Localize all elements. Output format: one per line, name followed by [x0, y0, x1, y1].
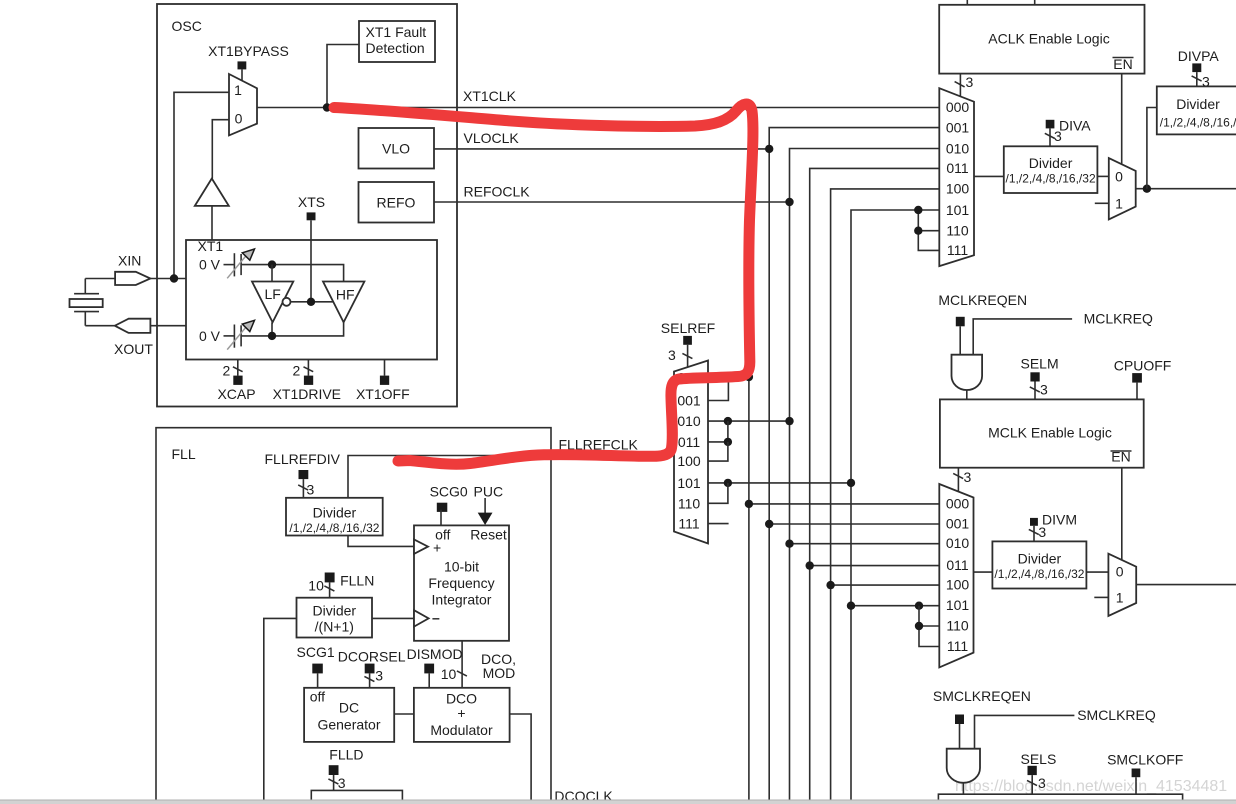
- wire XT1DRIVE stub: [293, 360, 314, 379]
- divider DIVPA box: [1157, 86, 1236, 134]
- svg-text:ACLK Enable Logic: ACLK Enable Logic: [988, 31, 1109, 47]
- wire ACLK enable stub up a: [966, 0, 968, 5]
- junction top node: [268, 260, 276, 268]
- wire mux input 0 from buffer: [212, 120, 229, 179]
- wire PUC arrow: [478, 498, 493, 525]
- MCLK Enable Logic box: [940, 399, 1144, 467]
- svg-text:001: 001: [677, 393, 701, 409]
- capacitor top variable: [224, 249, 273, 278]
- svg-text:https://blog.csdn.net/weixin_4: https://blog.csdn.net/weixin_41534481: [955, 778, 1227, 795]
- svg-text:3: 3: [375, 668, 383, 684]
- pin square SELS: [1028, 766, 1037, 775]
- wire and gate to SMCLK enable: [962, 783, 964, 795]
- svg-text:DIVM: DIVM: [1042, 512, 1077, 528]
- wire REFOCLK: [434, 201, 790, 203]
- junction mclk 110 bracket: [915, 622, 923, 630]
- svg-text:XT1CLK: XT1CLK: [463, 88, 517, 104]
- wire DIVM stub: [1029, 524, 1047, 541]
- svg-text:Modulator: Modulator: [430, 722, 493, 738]
- wire MCLK EN line: [1121, 468, 1123, 560]
- junction selref 010 refoclk: [785, 417, 793, 425]
- wire ACLK EN line: [1121, 74, 1123, 165]
- pin square XCAP: [233, 376, 242, 385]
- svg-text:VLOCLK: VLOCLK: [464, 130, 520, 146]
- svg-text:1: 1: [1116, 590, 1124, 606]
- FLL block outline: [156, 428, 551, 800]
- pin square SCG1: [312, 664, 323, 674]
- pin XOUT: [115, 319, 151, 333]
- mux MCLK source select: [939, 484, 973, 667]
- svg-text:XIN: XIN: [118, 253, 141, 269]
- crystal leads: [84, 279, 86, 326]
- wire SELREF 100 input: [708, 442, 728, 461]
- wire MCLKREQEN to and gate: [959, 326, 961, 354]
- svg-text:0: 0: [235, 111, 243, 127]
- svg-text:PUC: PUC: [474, 484, 504, 500]
- svg-text:/1,/2,/4,/8,/16,/32: /1,/2,/4,/8,/16,/32: [289, 521, 379, 535]
- svg-text:SMCLKREQ: SMCLKREQ: [1077, 707, 1156, 723]
- pin square SMCLKREQEN: [955, 715, 964, 725]
- wire refdiv out to integrator: [348, 536, 414, 547]
- svg-text:010: 010: [677, 413, 701, 429]
- integrator box 10-bit: [414, 525, 509, 640]
- wire MCLK mux 110 input: [919, 625, 939, 627]
- wire bottom node horizontal: [272, 322, 344, 336]
- svg-text:3: 3: [1038, 524, 1046, 540]
- pin square DIVA: [1046, 120, 1055, 129]
- clock chevron plus input: [414, 539, 428, 554]
- wire SELREF 110 input: [708, 483, 728, 503]
- wire SELREF 010 input from REFOCLK: [708, 420, 790, 422]
- junction selref 010 bracket: [724, 417, 732, 425]
- pin square XTS: [307, 212, 316, 220]
- pin square XT1BYPASS: [238, 61, 247, 69]
- svg-text:001: 001: [946, 120, 970, 136]
- svg-text:Detection: Detection: [366, 40, 425, 56]
- wire SCG0 stub: [440, 510, 442, 526]
- junction bracket 101: [914, 206, 922, 214]
- pin square FLLN: [325, 573, 335, 583]
- svg-text:SCG0: SCG0: [430, 484, 468, 500]
- wire SELM stub: [1030, 382, 1048, 400]
- junction bracket 110: [914, 227, 922, 235]
- svg-text:/1,/2,/4,/8,/16,/32: /1,/2,/4,/8,/16,/32: [1006, 172, 1096, 186]
- wire ACLK mux out to divider: [974, 175, 1004, 177]
- amplifier LF: [252, 282, 293, 323]
- red marker annotation stroke: [334, 104, 753, 464]
- inverter bubble LF output: [283, 298, 291, 306]
- svg-text:XT1OFF: XT1OFF: [356, 386, 410, 402]
- scrollbar: [0, 800, 1236, 804]
- wire SMCLKOFF stub: [1135, 777, 1137, 794]
- svg-text:111: 111: [947, 638, 968, 654]
- pin square XT1DRIVE: [304, 376, 313, 385]
- svg-text:VLO: VLO: [382, 141, 410, 157]
- svg-text:XCAP: XCAP: [217, 386, 255, 402]
- svg-text:3: 3: [1040, 382, 1048, 398]
- wire FLLREFCLK from SELREF: [348, 456, 674, 498]
- svg-text:000: 000: [946, 99, 970, 115]
- svg-text:REFOCLK: REFOCLK: [464, 184, 531, 200]
- junction selref 101 bracket: [724, 479, 732, 487]
- junction XIN node: [170, 274, 178, 282]
- pin square DIVPA: [1192, 63, 1201, 72]
- vertical bus REFOCLK: [790, 149, 940, 801]
- pin square SMCLKOFF: [1132, 769, 1141, 778]
- junction XT1CLK selref: [745, 373, 753, 381]
- pin square DCORSEL: [365, 664, 375, 674]
- wire MCLK select 3: [953, 468, 971, 492]
- mux MCLK enable 01: [1108, 554, 1136, 616]
- svg-text:100: 100: [946, 181, 970, 197]
- svg-text:011: 011: [946, 557, 969, 573]
- junction XT1CLK at fault detect: [323, 103, 331, 111]
- wire FLLREFDIV stub: [298, 479, 314, 498]
- wire DIVA stub: [1045, 128, 1062, 146]
- svg-text:SELREF: SELREF: [661, 320, 715, 336]
- svg-text:XT1: XT1: [198, 238, 224, 254]
- pin square SCG0: [437, 503, 448, 512]
- pin square FLLREFDIV: [299, 470, 309, 479]
- svg-text:MOD: MOD: [483, 665, 516, 681]
- wire LF bubble to HF: [291, 301, 334, 303]
- svg-text:Divider: Divider: [1029, 155, 1073, 171]
- junction mclk 000: [745, 500, 753, 508]
- junction selref 101 bus: [847, 479, 855, 487]
- junction bottom node: [268, 332, 276, 340]
- divider DIVM box: [992, 541, 1086, 588]
- vertical bus XT1CLK: [748, 108, 750, 801]
- junction REFOCLK bus: [785, 198, 793, 206]
- svg-text:101: 101: [946, 202, 970, 218]
- svg-text:XT1 Fault: XT1 Fault: [366, 24, 427, 40]
- svg-text:Integrator: Integrator: [432, 592, 492, 608]
- wire XT1CLK output of mux: [257, 107, 939, 109]
- wire MCLK mux 101 input: [851, 605, 939, 607]
- pin square DIVM: [1030, 518, 1038, 526]
- svg-text:1: 1: [1115, 195, 1123, 211]
- XT1 core box: [186, 238, 437, 360]
- junction ACLK out: [1143, 185, 1151, 193]
- svg-text:SELM: SELM: [1021, 356, 1059, 372]
- wire divider to 01mux: [1097, 175, 1108, 177]
- svg-text:000: 000: [946, 495, 970, 511]
- junction XTS node: [307, 298, 315, 306]
- wire VLOCLK: [434, 148, 769, 150]
- svg-text:HF: HF: [336, 287, 355, 303]
- svg-text:LF: LF: [265, 286, 281, 302]
- wire N+1 out to integrator minus: [372, 617, 414, 619]
- wire bottom node: [271, 322, 273, 336]
- wire mux input 1 from XIN: [174, 92, 229, 278]
- svg-text:FLL: FLL: [172, 446, 196, 462]
- mux XT1BYPASS: [229, 74, 257, 135]
- wire MCLK mux out to divider: [974, 571, 993, 573]
- wire buffer to XT1 core: [211, 206, 213, 240]
- wire DC gen to DCO: [394, 713, 414, 715]
- svg-text:/1,/2,/4,/8,/16,/32: /1,/2,/4,/8,/16,/32: [1160, 116, 1236, 130]
- and gate MCLK request: [952, 355, 983, 390]
- svg-text:3: 3: [966, 74, 974, 90]
- wire SELREF 011 input: [708, 421, 728, 442]
- wire MCLKREQ: [973, 319, 1072, 355]
- svg-text:/(N+1): /(N+1): [315, 619, 354, 635]
- label DCO MOD: [481, 651, 516, 681]
- pin XIN: [115, 272, 150, 285]
- svg-text:FLLREFDIV: FLLREFDIV: [265, 451, 341, 467]
- svg-text:2: 2: [293, 363, 301, 379]
- svg-text:MCLKREQEN: MCLKREQEN: [938, 292, 1027, 308]
- junction selref 011: [724, 438, 732, 446]
- svg-text:0 V: 0 V: [199, 257, 221, 273]
- wire DCO output down: [510, 714, 531, 800]
- pin square CPUOFF: [1132, 373, 1142, 383]
- svg-text:MCLKREQ: MCLKREQ: [1084, 311, 1153, 327]
- svg-text:DIVA: DIVA: [1059, 118, 1091, 134]
- svg-text:3: 3: [964, 469, 972, 485]
- mux ACLK source select: [939, 88, 974, 266]
- DC Generator box: [304, 688, 394, 742]
- wire DIVPA stub: [1192, 72, 1210, 89]
- svg-text:10: 10: [308, 578, 324, 594]
- wire SELREF 000 input from XT1CLK: [708, 376, 749, 378]
- svg-text:0 V: 0 V: [199, 328, 221, 344]
- svg-text:FLLD: FLLD: [329, 747, 363, 763]
- svg-text:1: 1: [234, 82, 242, 98]
- wire CPUOFF stub: [1136, 383, 1138, 400]
- svg-text:REFO: REFO: [377, 195, 416, 211]
- pin square SELM: [1030, 372, 1039, 381]
- svg-text:0: 0: [1116, 564, 1124, 580]
- svg-text:111: 111: [678, 516, 699, 532]
- svg-text:off: off: [310, 689, 325, 705]
- svg-text:100: 100: [946, 577, 970, 593]
- divider FLLD box top: [311, 790, 402, 800]
- svg-text:XT1DRIVE: XT1DRIVE: [273, 386, 341, 402]
- SMCLK Enable Logic box top: [938, 794, 1182, 800]
- svg-text:101: 101: [946, 597, 970, 613]
- svg-text:SCG1: SCG1: [297, 644, 335, 660]
- svg-text:Frequency: Frequency: [428, 575, 494, 591]
- wire XT1 fault detect tap: [327, 45, 359, 108]
- divider N+1 box: [297, 598, 373, 638]
- DCO Modulator box: [414, 688, 510, 742]
- svg-text:XOUT: XOUT: [114, 341, 153, 357]
- wire ACLK mux 110 bracket: [918, 210, 939, 250]
- svg-text:XT1BYPASS: XT1BYPASS: [208, 43, 289, 59]
- pin square FLLD: [329, 765, 339, 775]
- svg-text:011: 011: [678, 434, 701, 450]
- mux ACLK enable 01: [1109, 158, 1136, 219]
- svg-text:EN: EN: [1113, 56, 1132, 72]
- wire ACLK select 3: [955, 74, 974, 97]
- amplifier HF: [323, 282, 364, 323]
- wire MCLK mux 011 input: [810, 565, 940, 567]
- wire SCG1 stub: [317, 673, 319, 687]
- svg-text:Divider: Divider: [1018, 551, 1062, 567]
- wire divm to 01mux: [1086, 571, 1108, 573]
- svg-text:101: 101: [677, 475, 701, 491]
- junction mclk 010: [785, 540, 793, 548]
- svg-text:010: 010: [946, 140, 970, 156]
- wire XTS stub into core: [310, 220, 312, 301]
- wire XCAP stub: [223, 360, 243, 379]
- mux SELREF: [674, 361, 708, 544]
- wire top node to LF input: [271, 265, 273, 282]
- svg-text:110: 110: [946, 618, 969, 634]
- wire and gate to MCLK enable: [966, 390, 968, 400]
- VLO oscillator box: [359, 128, 435, 169]
- svg-text:100: 100: [677, 453, 701, 469]
- svg-text:Divider: Divider: [313, 505, 357, 521]
- wire ACLK enable stub up b: [1034, 0, 1036, 5]
- svg-text:3: 3: [338, 775, 346, 791]
- svg-text:2: 2: [223, 363, 231, 379]
- svg-text:3: 3: [307, 482, 315, 498]
- vertical bus DCOCLKDIV c: [851, 210, 939, 800]
- wire ACLK to DIVPA: [1147, 108, 1157, 189]
- wire XT1BYPASS select stub: [241, 69, 243, 80]
- wire feedback into N+1: [264, 618, 297, 800]
- wire FLLD stub: [328, 775, 345, 791]
- vertical bus DCOCLKDIV a: [810, 168, 940, 800]
- junction mclk 100: [826, 581, 834, 589]
- svg-text:–: –: [432, 610, 440, 626]
- wire SELREF 001 input: [708, 377, 728, 401]
- wire SELREF 111 stub: [708, 523, 729, 525]
- svg-text:DISMOD: DISMOD: [407, 646, 463, 662]
- svg-text:SMCLKREQEN: SMCLKREQEN: [933, 688, 1031, 704]
- svg-text:SELS: SELS: [1021, 751, 1057, 767]
- svg-text:111: 111: [947, 242, 968, 258]
- wire XT1OFF stub: [384, 360, 386, 376]
- svg-text:FLLN: FLLN: [340, 573, 374, 589]
- svg-text:0: 0: [1115, 169, 1123, 185]
- svg-text:10-bit: 10-bit: [444, 559, 479, 575]
- wire MCLK 01mux input1 stub: [1094, 596, 1108, 598]
- pin square SELREF: [683, 336, 692, 345]
- wire DCORSEL stub: [364, 668, 383, 688]
- svg-text:Reset: Reset: [470, 527, 507, 543]
- svg-text:DIVPA: DIVPA: [1178, 48, 1220, 64]
- clock chevron minus input: [414, 610, 429, 626]
- OSC block outline: [157, 4, 457, 407]
- junction VLOCLK bus: [765, 145, 773, 153]
- svg-text:SMCLKOFF: SMCLKOFF: [1107, 752, 1183, 768]
- wire MCLK mux 100 input: [831, 584, 940, 586]
- svg-text:110: 110: [678, 495, 701, 511]
- capacitor bottom variable: [224, 320, 273, 349]
- svg-text:010: 010: [946, 535, 970, 551]
- svg-text:Generator: Generator: [317, 717, 380, 733]
- svg-text:3: 3: [1054, 128, 1062, 144]
- crystal symbol: [70, 294, 103, 312]
- divider DIVA box: [1004, 146, 1098, 193]
- svg-text:DC: DC: [339, 700, 359, 716]
- wire SELS stub: [1027, 775, 1046, 794]
- wire MCLK mux 000 input: [749, 503, 939, 505]
- pin square DISMOD: [424, 664, 434, 674]
- wire XIN to crystal: [85, 278, 115, 280]
- svg-text:MCLK Enable Logic: MCLK Enable Logic: [988, 425, 1112, 441]
- junction mclk 101 bus: [847, 602, 855, 610]
- svg-text:10: 10: [441, 666, 457, 682]
- wire SMCLKREQEN to and gate: [959, 724, 961, 749]
- wire SELREF select stub: [668, 345, 692, 367]
- and gate SMCLK request: [947, 749, 980, 783]
- junction mclk 101 bracket: [915, 602, 923, 610]
- wire MCLK output: [1136, 584, 1236, 586]
- pin square MCLKREQEN: [956, 317, 965, 327]
- svg-text:3: 3: [668, 347, 676, 363]
- wire MCLK mux 010 input: [790, 543, 940, 545]
- pin square XT1OFF: [380, 376, 389, 385]
- wire FLLN stub: [324, 582, 334, 597]
- svg-text:Divider: Divider: [1176, 96, 1220, 112]
- wire ACLK output: [1136, 188, 1236, 190]
- wire top node to HF input: [272, 265, 344, 282]
- wire 01mux input1 stub: [1095, 202, 1109, 204]
- wire SMCLKREQ: [975, 715, 1075, 748]
- wire MCLK mux 001 input: [769, 523, 939, 525]
- svg-text:OSC: OSC: [172, 18, 202, 34]
- wire integrator to DCO 10: [441, 641, 467, 688]
- junction mclk 001: [765, 520, 773, 528]
- wire XIN to core: [150, 278, 186, 280]
- wire XOUT to crystal: [85, 325, 115, 327]
- wire XOUT to core: [150, 325, 186, 327]
- ACLK Enable Logic box: [939, 5, 1144, 74]
- junction XT1CLK bus top: [745, 103, 753, 111]
- vertical bus VLOCLK: [769, 128, 939, 800]
- wire MCLK mux 111 bracket: [919, 606, 939, 647]
- svg-text:3: 3: [1038, 775, 1046, 791]
- svg-text:011: 011: [946, 160, 969, 176]
- svg-text:110: 110: [946, 223, 969, 239]
- svg-text:Divider: Divider: [313, 603, 357, 619]
- vertical bus DCOCLKDIV b: [831, 189, 940, 800]
- XT1 Fault Detection box: [359, 21, 435, 62]
- svg-text:+: +: [457, 705, 465, 721]
- svg-text:CPUOFF: CPUOFF: [1114, 358, 1172, 374]
- svg-text:+: +: [433, 540, 441, 556]
- svg-text:DCORSEL: DCORSEL: [338, 649, 406, 665]
- svg-text:001: 001: [946, 516, 970, 532]
- svg-text:/1,/2,/4,/8,/16,/32: /1,/2,/4,/8,/16,/32: [994, 567, 1084, 581]
- svg-text:XTS: XTS: [298, 194, 325, 210]
- wire ACLK mux 110 input: [918, 230, 939, 232]
- buffer amplifier triangle: [195, 179, 229, 206]
- wire SELREF 101 input from DCOCLKDIV: [708, 482, 851, 484]
- REFO oscillator box: [359, 182, 435, 223]
- divider FLLREFDIV box: [286, 498, 383, 536]
- wire DISMOD stub: [428, 673, 430, 687]
- junction mclk 011: [806, 561, 814, 569]
